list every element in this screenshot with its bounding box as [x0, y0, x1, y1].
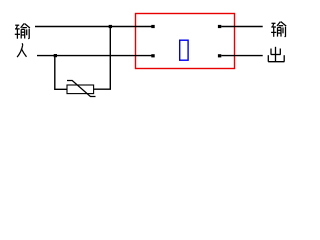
varistor diagonal mark — [67, 81, 96, 97]
wire: varistor left lead — [55, 56, 67, 90]
EMI filter enclosure box (red) — [136, 14, 235, 69]
label 输出 (output), character 出 — [268, 47, 284, 62]
junction node on top wire — [109, 25, 112, 28]
wire: bottom output line — [221, 55, 262, 57]
terminal dot top-left — [151, 25, 154, 28]
junction node on bottom wire — [54, 54, 57, 57]
varistor RV body — [67, 85, 94, 94]
label 输入 (input), character 输 — [15, 24, 30, 39]
wire: top input line — [35, 26, 152, 28]
wire: top output line — [221, 26, 262, 28]
label 输出 (output), character 输 — [271, 22, 286, 37]
filter element symbol (blue rectangle) — [180, 40, 188, 60]
label 输入 (input), character 入 — [17, 43, 26, 57]
wire: bottom input line — [37, 55, 152, 57]
terminal dot top-right — [218, 25, 221, 28]
wire: varistor right lead up to top wire — [94, 27, 110, 90]
terminal dot bottom-right — [218, 54, 221, 57]
terminal dot bottom-left — [151, 54, 154, 57]
